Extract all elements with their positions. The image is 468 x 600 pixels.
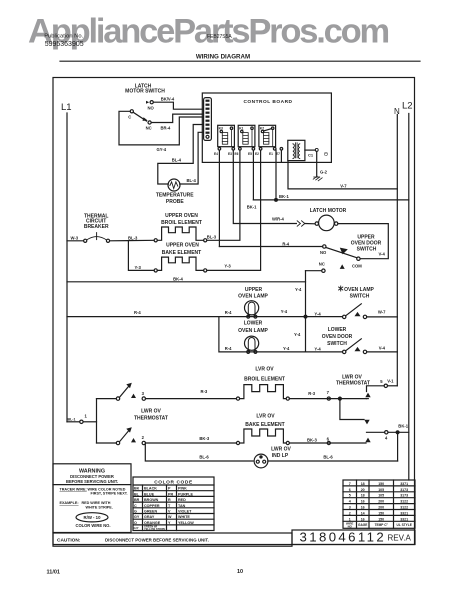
svg-text:3: 3	[349, 506, 351, 510]
svg-text:GREEN: GREEN	[144, 510, 157, 514]
svg-text:Publication No.: Publication No.	[44, 33, 83, 39]
svg-text:E4: E4	[214, 152, 218, 156]
thermostat contact 2	[116, 441, 119, 444]
svg-text:R-4: R-4	[225, 310, 232, 315]
svg-text:BL: BL	[134, 492, 140, 496]
indicator lamp lower oven	[254, 454, 268, 468]
svg-text:BK-1: BK-1	[279, 194, 289, 199]
svg-text:W/R-4: W/R-4	[272, 217, 285, 222]
svg-text:3122: 3122	[400, 506, 408, 510]
svg-text:R-4: R-4	[282, 241, 289, 246]
heating element lower bake	[236, 441, 239, 444]
wire NC to Y-4 riser	[306, 270, 322, 272]
wire L2 vertical	[408, 114, 410, 481]
heating element lower broil	[236, 397, 239, 400]
svg-text:LOWER: LOWER	[328, 327, 347, 333]
svg-text:CONTROL BOARD: CONTROL BOARD	[243, 99, 292, 105]
svg-text:10: 10	[237, 569, 243, 575]
svg-text:R-4: R-4	[134, 310, 141, 315]
svg-text:WHITE: WHITE	[178, 515, 190, 519]
svg-text:150: 150	[378, 511, 384, 515]
svg-text:6: 6	[327, 436, 330, 441]
svg-text:GAGE: GAGE	[358, 523, 367, 527]
terminal 7	[327, 397, 330, 400]
heating element upper bake	[154, 269, 157, 272]
svg-text:4: 4	[349, 500, 351, 504]
svg-text:BK: BK	[134, 487, 140, 491]
latch motor switch contact C	[130, 110, 133, 113]
svg-text:11/01: 11/01	[47, 570, 60, 576]
svg-text:BROIL ELEMENT: BROIL ELEMENT	[161, 220, 202, 226]
svg-text:RED: RED	[178, 498, 186, 502]
svg-text:BAKE ELEMENT: BAKE ELEMENT	[162, 250, 201, 256]
svg-text:R-4: R-4	[225, 346, 232, 351]
upper door switch arm	[326, 248, 357, 258]
latch motor switch contact NC	[148, 121, 151, 124]
svg-text:Y-4: Y-4	[314, 346, 321, 351]
svg-text:SWITCH: SWITCH	[357, 246, 377, 252]
svg-text:E7: E7	[276, 152, 280, 156]
svg-text:NC: NC	[319, 262, 325, 267]
svg-text:E2: E2	[255, 152, 259, 156]
wire BK-4 bus from L1	[67, 281, 306, 283]
latch motor switch contact NO	[150, 101, 153, 104]
upper oven door switch NO	[323, 245, 326, 248]
temperature probe	[168, 179, 180, 191]
thermostat contact 5	[384, 384, 387, 387]
svg-text:16: 16	[361, 506, 365, 510]
wire BK-3 to terminal 6	[289, 442, 366, 444]
svg-text:R-3: R-3	[201, 389, 208, 394]
svg-text:Y-3: Y-3	[224, 264, 231, 269]
svg-text:YELLOW: YELLOW	[178, 521, 194, 525]
ribbon connector P1	[204, 98, 212, 141]
svg-text:150: 150	[378, 482, 384, 486]
svg-text:W: W	[168, 515, 172, 519]
svg-text:WIRING DIAGRAM: WIRING DIAGRAM	[196, 54, 250, 61]
outer schematic frame	[53, 78, 415, 545]
wire BL-3 breaker to broil element	[110, 239, 155, 242]
svg-text:16: 16	[361, 517, 365, 521]
wire L1 vertical	[66, 113, 68, 422]
svg-text:V-4: V-4	[379, 252, 386, 257]
wire contact 4 row	[367, 431, 385, 433]
svg-text:3321: 3321	[400, 511, 408, 515]
wire E2 down to Y-3 row	[207, 150, 261, 270]
terminal 1	[80, 420, 83, 423]
svg-text:UPPER OVEN: UPPER OVEN	[165, 213, 198, 219]
svg-text:E6: E6	[235, 152, 239, 156]
svg-text:TAN: TAN	[178, 504, 186, 508]
wire from NC to connector	[151, 114, 203, 122]
svg-text:Y-4: Y-4	[295, 287, 302, 292]
svg-text:3371: 3371	[400, 482, 408, 486]
svg-text:V-1: V-1	[387, 378, 394, 383]
svg-text:E5: E5	[248, 152, 252, 156]
svg-text:RED WIRE WITH: RED WIRE WITH	[82, 501, 111, 505]
svg-text:VIOLET: VIOLET	[178, 510, 192, 514]
wire N vertical	[396, 115, 398, 386]
svg-text:Y-4: Y-4	[314, 311, 321, 316]
svg-text:6: 6	[349, 488, 351, 492]
latch motor	[319, 215, 335, 231]
svg-text:WHITE STRIPE.: WHITE STRIPE.	[86, 506, 113, 510]
wire to contact 2	[97, 442, 117, 444]
svg-text:E1: E1	[269, 152, 273, 156]
lamp lower oven	[245, 336, 259, 350]
svg-text:YELLOW STRIPE: YELLOW STRIPE	[144, 527, 165, 531]
svg-text:WIRE COLOR NOTED: WIRE COLOR NOTED	[88, 487, 126, 491]
svg-text:18: 18	[361, 482, 365, 486]
svg-text:G-2: G-2	[320, 170, 328, 175]
svg-text:BK/V-4: BK/V-4	[161, 97, 175, 102]
oven lamp switch label	[339, 286, 343, 291]
svg-text:G: G	[134, 510, 137, 514]
svg-text:150: 150	[378, 517, 384, 521]
svg-text:DISCONNECT POWER BEFORE SERVIC: DISCONNECT POWER BEFORE SERVICING UNIT.	[105, 538, 209, 543]
oven lamp switch	[343, 315, 346, 318]
wire BK-3 to lower bake element	[146, 442, 237, 444]
svg-text:TEMPERATURE: TEMPERATURE	[156, 193, 194, 199]
svg-text:3: 3	[142, 391, 145, 396]
svg-text:UL STYLE: UL STYLE	[397, 523, 412, 527]
relay K1	[238, 125, 255, 146]
wire BL-4 probe feed	[158, 125, 204, 185]
svg-text:BEFORE SERVICING UNIT.: BEFORE SERVICING UNIT.	[66, 479, 118, 484]
svg-text:L1: L1	[61, 102, 72, 113]
svg-text:OVEN DOOR: OVEN DOOR	[322, 334, 353, 340]
ground G-2	[316, 151, 318, 177]
relay K2	[259, 125, 276, 146]
svg-text:5: 5	[380, 379, 383, 384]
svg-text:BROWN: BROWN	[144, 498, 159, 502]
svg-text:BL-3: BL-3	[128, 235, 138, 240]
svg-text:THERMOSTAT: THERMOSTAT	[134, 416, 168, 422]
svg-text:BK-3: BK-3	[199, 436, 209, 441]
board terminals E4 E3 E6 E5 E2 E1 E7	[214, 152, 280, 156]
svg-text:Y-3: Y-3	[135, 265, 142, 270]
svg-text:BL-6: BL-6	[323, 455, 333, 460]
svg-text:BK-1: BK-1	[247, 204, 257, 209]
wire contact 5 to N	[388, 385, 398, 387]
svg-text:GY: GY	[134, 515, 140, 519]
wire branch down from node 7	[340, 399, 364, 420]
svg-text:G/Y: G/Y	[134, 526, 139, 530]
wire E5 down to BK-1 row	[252, 150, 254, 200]
junction dot node 7	[338, 397, 341, 400]
svg-text:BR-4: BR-4	[161, 125, 171, 130]
wire R-4 upper lamp row from L1	[67, 316, 343, 318]
svg-text:LVR OV: LVR OV	[255, 366, 274, 372]
svg-text:E3: E3	[228, 152, 232, 156]
junction E1/BK-1	[275, 199, 278, 202]
svg-text:BK-4: BK-4	[173, 276, 183, 281]
wire V-7 transformer to N	[288, 161, 397, 189]
svg-text:BLUE: BLUE	[144, 492, 155, 496]
svg-text:R: R	[168, 498, 171, 502]
terminal C1	[305, 149, 316, 151]
svg-text:LATCH MOTOR: LATCH MOTOR	[310, 208, 347, 214]
svg-text:4: 4	[385, 435, 388, 440]
svg-text:2: 2	[142, 435, 145, 440]
svg-text:O: O	[134, 521, 137, 525]
upper oven door switch NC	[322, 269, 325, 272]
svg-text:BL-4: BL-4	[187, 178, 197, 183]
svg-text:Y-4: Y-4	[281, 309, 288, 314]
svg-text:5: 5	[349, 494, 351, 498]
svg-text:BREAKER: BREAKER	[84, 224, 109, 230]
svg-text:BAKE ELEMENT: BAKE ELEMENT	[245, 422, 284, 428]
thermostat contact 3	[116, 397, 119, 400]
wire E7 stub	[280, 150, 282, 162]
svg-text:OVEN LAMP: OVEN LAMP	[344, 287, 374, 293]
svg-text:NC: NC	[146, 125, 152, 130]
svg-text:R-3: R-3	[308, 391, 315, 396]
wire BL-4 probe return	[180, 132, 204, 184]
svg-text:BL-4: BL-4	[172, 158, 182, 163]
svg-text:OVEN LAMP: OVEN LAMP	[238, 293, 268, 299]
thermostat contact 4	[385, 431, 388, 434]
wire to thermostat branch	[83, 421, 96, 423]
svg-text:W-3: W-3	[71, 236, 79, 241]
svg-text:COM: COM	[352, 263, 362, 268]
wire BL-6 riser left	[145, 443, 253, 461]
svg-text:BR: BR	[134, 498, 140, 502]
svg-text:7: 7	[327, 390, 330, 395]
svg-text:EXAMPLE:: EXAMPLE:	[60, 501, 79, 505]
svg-text:BL-1: BL-1	[68, 417, 76, 421]
svg-text:Y-4: Y-4	[294, 332, 301, 337]
svg-text:18: 18	[361, 494, 365, 498]
svg-text:UPPER OVEN: UPPER OVEN	[166, 243, 199, 249]
svg-text:NO: NO	[148, 106, 155, 111]
wire gauge table	[343, 480, 415, 528]
wire R-4 to upper oven door switch NO	[219, 246, 322, 248]
svg-text:FEB27S5A: FEB27S5A	[207, 34, 232, 40]
wire E1 down to BK-1 junction	[275, 150, 277, 200]
svg-text:LWR OV: LWR OV	[342, 374, 362, 380]
svg-text:PURPLE: PURPLE	[178, 492, 193, 496]
svg-text:Y-4: Y-4	[283, 346, 290, 351]
wire BL-6 to riser	[268, 460, 398, 462]
wire jog up to contact 5	[367, 398, 369, 400]
svg-text:BK-3: BK-3	[307, 438, 317, 443]
svg-text:105: 105	[378, 494, 384, 498]
wire contact 4 to L2	[388, 431, 409, 433]
junction Y-4/lamp row	[304, 315, 307, 318]
wire R-3 to lower broil element	[146, 398, 237, 400]
svg-text:ORANGE: ORANGE	[144, 521, 161, 525]
svg-text:BL-3: BL-3	[207, 234, 217, 239]
wire lamp tap down	[219, 317, 306, 352]
svg-text:200: 200	[378, 500, 384, 504]
svg-text:318046112: 318046112	[300, 529, 387, 544]
svg-text:SWITCH: SWITCH	[350, 293, 370, 299]
wire riser to junction	[397, 432, 399, 461]
junction BL-6/L2 riser	[396, 431, 399, 434]
svg-text:IND LP: IND LP	[272, 453, 289, 459]
svg-text:200: 200	[378, 506, 384, 510]
svg-text:OVEN LAMP: OVEN LAMP	[238, 328, 268, 334]
svg-text:BL-6: BL-6	[199, 455, 209, 460]
svg-text:LOWER: LOWER	[244, 320, 263, 326]
svg-text:MOTOR SWITCH: MOTOR SWITCH	[125, 88, 165, 94]
svg-text:COPPER: COPPER	[144, 504, 160, 508]
caution box	[53, 533, 292, 546]
latch switch arm C to NC	[133, 112, 146, 121]
wire to contact 3	[97, 398, 117, 400]
terminal 6	[327, 441, 330, 444]
wire W-7 to N	[367, 316, 398, 318]
wire L1 to breaker	[67, 240, 84, 242]
wire from NO to connector	[153, 102, 203, 109]
svg-text:CAUTION:: CAUTION:	[57, 538, 81, 544]
svg-text:C: C	[134, 504, 137, 508]
svg-text:1: 1	[85, 413, 88, 418]
svg-text:5995363905: 5995363905	[45, 41, 84, 48]
wire Y-3 tee down to bake row	[128, 241, 154, 271]
svg-text:3321: 3321	[400, 517, 408, 521]
svg-text:COLOR WIRE NO.: COLOR WIRE NO.	[75, 523, 110, 528]
part number box	[292, 530, 415, 545]
wire E3 down to W/R-4	[233, 150, 296, 223]
svg-text:GRAY: GRAY	[144, 515, 155, 519]
svg-text:3173: 3173	[400, 494, 408, 498]
svg-text:PR: PR	[168, 492, 173, 496]
wire BK-1 to L2	[253, 199, 408, 201]
svg-text:LWR OV: LWR OV	[271, 447, 291, 453]
svg-text:UPPER: UPPER	[245, 287, 263, 293]
thermal circuit breaker	[84, 239, 87, 242]
warning box	[53, 464, 131, 533]
svg-text:105: 105	[378, 488, 384, 492]
svg-text:LWR OV: LWR OV	[141, 409, 161, 415]
wire V-4 to N	[367, 351, 398, 353]
svg-text:BROIL ELEMENT: BROIL ELEMENT	[244, 376, 285, 382]
svg-text:THERMOSTAT: THERMOSTAT	[336, 381, 370, 387]
svg-text:NO: NO	[320, 250, 327, 255]
svg-text:FIRST, STRIPE NEXT.: FIRST, STRIPE NEXT.	[91, 492, 128, 496]
svg-text:16: 16	[361, 500, 365, 504]
lower oven door switch	[343, 350, 346, 353]
wire GY-4 from C to connector	[119, 111, 203, 145]
wire Y-4 to lower door switch	[306, 351, 343, 353]
relay K3	[218, 125, 235, 146]
svg-text:L2: L2	[402, 101, 413, 112]
svg-text:C: C	[128, 115, 131, 120]
svg-text:3173: 3173	[400, 488, 408, 492]
svg-text:20: 20	[361, 488, 365, 492]
wire L1 to terminal 1	[67, 421, 80, 423]
wire E4 down to R-4 row	[218, 150, 220, 246]
wire E6 down to BL-3 row	[207, 150, 240, 240]
svg-text:PINK: PINK	[178, 487, 187, 491]
svg-text:3122: 3122	[400, 500, 408, 504]
svg-text:14: 14	[361, 511, 365, 515]
svg-text:REV.A: REV.A	[388, 534, 412, 543]
wire latch motor to COM	[338, 224, 388, 259]
color code table	[133, 477, 214, 531]
svg-text:PROBE: PROBE	[166, 199, 184, 205]
svg-text:Θ: Θ	[324, 152, 328, 158]
lamp upper oven	[245, 301, 259, 315]
svg-text:TRACER WIRE:: TRACER WIRE:	[60, 487, 87, 491]
wire R-3 to terminal 7	[289, 398, 366, 400]
svg-text:SWITCH: SWITCH	[327, 341, 347, 347]
title rule	[60, 60, 420, 62]
svg-text:7: 7	[349, 482, 351, 486]
heating element upper broil	[154, 239, 157, 242]
control board outline	[202, 93, 331, 162]
svg-text:TEMP C°: TEMP C°	[375, 523, 389, 527]
transformer T1	[288, 140, 305, 160]
svg-text:BK-1: BK-1	[398, 423, 408, 428]
svg-text:2: 2	[349, 511, 351, 515]
wire Y-4 riser	[305, 271, 307, 352]
svg-text:V-7: V-7	[340, 184, 347, 189]
svg-text:GY-4: GY-4	[157, 147, 167, 152]
upper oven door switch COM	[357, 257, 360, 260]
svg-text:R/W - 10: R/W - 10	[84, 515, 102, 520]
connector chevrons on W/R-4	[297, 221, 305, 226]
svg-text:V-4: V-4	[379, 345, 386, 350]
svg-text:C1: C1	[308, 153, 314, 158]
svg-text:LVR OV: LVR OV	[256, 413, 275, 419]
svg-text:BLACK: BLACK	[144, 487, 157, 491]
svg-text:W-7: W-7	[378, 310, 386, 315]
